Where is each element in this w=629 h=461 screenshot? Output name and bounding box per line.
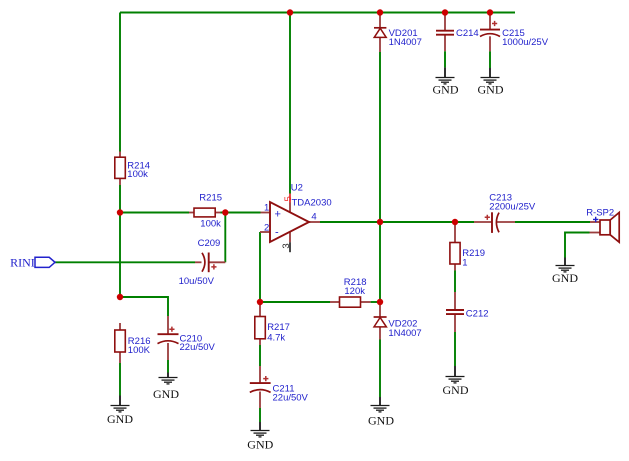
svg-text:R215: R215 <box>199 192 222 203</box>
wire R217 bottom lead <box>259 339 261 345</box>
wire R219 to C212 <box>454 271 456 293</box>
svg-text:100k: 100k <box>200 219 221 230</box>
wire C213 to speaker <box>515 221 590 223</box>
wire R216 top lead <box>119 323 121 330</box>
wire node A to R215 <box>120 212 189 214</box>
capacitor C210 <box>158 327 216 353</box>
svg-text:5: 5 <box>283 196 294 201</box>
junction top rail C215 <box>487 9 493 15</box>
wire pin 2 down and to R218 <box>260 232 330 302</box>
wire pin 3 stub <box>289 232 291 252</box>
capacitor C215 <box>480 21 549 48</box>
svg-text:RINI: RINI <box>10 256 35 270</box>
svg-text:3: 3 <box>281 243 292 248</box>
wire R216 bottom lead <box>119 352 121 363</box>
wire R218 left lead <box>330 301 340 303</box>
ground under C210 <box>153 373 179 402</box>
wire left vertical from rail to R214 <box>119 13 121 152</box>
svg-text:GND: GND <box>153 387 179 401</box>
wire VD202 top lead <box>379 302 381 317</box>
wire R219 bottom lead <box>454 264 456 271</box>
wire R217 to C211 <box>259 345 261 366</box>
ground under VD202 <box>368 397 394 427</box>
svg-text:4: 4 <box>311 212 316 223</box>
wire C211 top lead <box>259 366 261 383</box>
svg-text:GND: GND <box>433 83 459 97</box>
wire pin 2 stub <box>260 231 270 233</box>
wire C211 to ground <box>259 408 261 422</box>
wire R218 to output junction <box>371 301 380 303</box>
ground under R216 <box>107 396 133 427</box>
svg-text:C212: C212 <box>466 308 489 319</box>
junction output R219 node <box>452 219 458 225</box>
op-amp U2 TDA2030 <box>264 182 332 248</box>
svg-text:GND: GND <box>247 438 273 452</box>
wire VD202 bottom lead <box>379 327 381 340</box>
wire R217 top lead <box>259 302 261 317</box>
svg-text:2: 2 <box>264 223 269 234</box>
wire C215 bottom lead <box>489 36 491 68</box>
resistor R216 <box>115 330 151 356</box>
resistor R217 <box>255 317 290 344</box>
svg-text:1N4007: 1N4007 <box>389 37 422 48</box>
wire R218 right lead <box>361 301 371 303</box>
wire pin 4 stub <box>309 221 320 223</box>
wire R215 left lead <box>189 212 194 214</box>
svg-text:C209: C209 <box>198 238 221 249</box>
svg-text:1N4007: 1N4007 <box>388 328 421 339</box>
junction R216 C210 node <box>117 294 123 300</box>
wire C211 bottom lead <box>259 392 261 409</box>
wire VD201 bottom lead <box>379 38 381 53</box>
wire C212 top lead <box>454 292 456 310</box>
svg-text:1: 1 <box>264 203 269 214</box>
wire output vertical VD201 to feedback junction <box>379 52 381 302</box>
wire C212 to ground <box>454 332 456 366</box>
capacitor C211 <box>250 376 309 404</box>
wire C215 top lead <box>489 13 491 30</box>
wire speaker negative to ground <box>565 233 590 258</box>
resistor R215 <box>194 192 222 229</box>
capacitor C214 <box>436 28 479 39</box>
wire C213 left lead <box>474 221 492 223</box>
diode VD202 <box>374 317 422 339</box>
svg-text:4.7k: 4.7k <box>267 332 285 343</box>
svg-text:1000u/25V: 1000u/25V <box>502 37 549 48</box>
diode VD201 <box>374 28 422 48</box>
wire R219 top lead <box>454 222 456 243</box>
wire C210 top lead <box>167 316 169 334</box>
svg-text:R-SP2: R-SP2 <box>586 207 614 218</box>
svg-text:22u/50V: 22u/50V <box>180 342 216 353</box>
ground under C215 <box>478 68 504 97</box>
speaker R-SP2 <box>586 207 619 242</box>
ground under C211 <box>247 422 273 452</box>
wire op-amp output to C213 <box>320 221 474 223</box>
svg-text:100k: 100k <box>127 169 148 180</box>
wire node A down to R216 node <box>119 213 121 298</box>
wire C209 to pin1 node vertical <box>224 213 226 263</box>
junction feedback pin2 node <box>257 299 263 305</box>
junction node A left <box>117 209 123 215</box>
wire RIN input to C209 <box>55 261 195 263</box>
wire speaker positive lead <box>590 221 600 223</box>
wire C214 bottom lead <box>444 35 446 68</box>
wire C210 bottom lead <box>167 343 169 360</box>
ground under C212 <box>443 366 469 397</box>
svg-text:10u/50V: 10u/50V <box>179 276 215 287</box>
capacitor C209 <box>179 238 221 287</box>
svg-text:GND: GND <box>107 412 133 426</box>
svg-text:100K: 100K <box>128 345 151 356</box>
svg-text:GND: GND <box>478 83 504 97</box>
svg-text:TDA2030: TDA2030 <box>292 197 332 208</box>
junction top rail C214 <box>442 9 448 15</box>
svg-text:2200u/25V: 2200u/25V <box>489 202 536 213</box>
wire C213 right lead <box>497 221 515 223</box>
svg-text:-: - <box>275 227 279 239</box>
capacitor C212 <box>446 308 489 319</box>
wire VD202 to ground <box>379 340 381 398</box>
wire R214 top lead <box>119 152 121 158</box>
wire pin 1 stub <box>261 212 271 214</box>
wire C214 top lead <box>444 13 446 31</box>
wire R216 to ground <box>119 363 121 396</box>
wire pin 5 stub <box>289 194 291 213</box>
junction top rail VD201 <box>377 9 383 15</box>
port RINI <box>10 256 55 270</box>
resistor R218 <box>340 277 367 307</box>
svg-text:GND: GND <box>368 413 394 427</box>
junction output VD201 node <box>377 219 383 225</box>
wire speaker negative lead <box>590 232 601 234</box>
ground under speaker <box>552 258 578 286</box>
wire C212 bottom lead <box>454 314 456 332</box>
svg-text:+: + <box>275 209 281 221</box>
wire C209 right lead <box>209 261 226 263</box>
wire R214 bottom lead <box>119 178 121 185</box>
svg-text:120k: 120k <box>344 286 365 297</box>
wire pin 5 from rail <box>289 13 291 194</box>
resistor R219 <box>450 243 485 269</box>
wire C210 to ground <box>167 360 169 373</box>
wire top supply rail <box>120 12 515 14</box>
wire C209 left lead <box>195 261 202 263</box>
wire R215 to op-amp pin 1 <box>221 212 261 214</box>
svg-text:22u/50V: 22u/50V <box>273 393 309 404</box>
svg-text:C214: C214 <box>456 28 479 39</box>
wire R214 bottom to node A <box>119 185 121 213</box>
junction output R218 VD202 node <box>377 299 383 305</box>
svg-text:GND: GND <box>443 383 469 397</box>
junction top rail pin5 <box>287 9 293 15</box>
capacitor C213 <box>485 193 536 233</box>
svg-text:1: 1 <box>462 258 467 269</box>
junction pin1 node <box>222 209 228 215</box>
svg-text:GND: GND <box>552 271 578 285</box>
wire node to C210 branch <box>120 297 168 316</box>
ground under C214 <box>433 67 459 96</box>
wire VD201 top lead <box>379 13 381 28</box>
resistor R214 <box>115 157 150 180</box>
wire R215 right lead <box>215 212 220 214</box>
svg-text:U2: U2 <box>291 182 303 193</box>
